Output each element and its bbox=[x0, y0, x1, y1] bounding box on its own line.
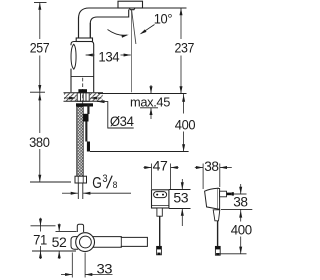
dimension 52 bbox=[58, 224, 60, 232]
faucet neck bbox=[79, 17, 91, 38]
box body bbox=[152, 190, 169, 208]
aerator bump bbox=[129, 8, 135, 10]
second extension line (pivot top) bbox=[56, 230, 77, 232]
svg-text:38: 38 bbox=[204, 159, 219, 174]
body base joint line bbox=[71, 76, 94, 78]
dimension 400 (plug cable) bbox=[240, 209, 242, 221]
top extension line bbox=[34, 2, 47, 4]
plug body bbox=[205, 188, 218, 209]
svg-text:400: 400 bbox=[231, 222, 253, 237]
dimension 38 horizontal bbox=[202, 164, 204, 190]
mounting washer (black) bbox=[76, 103, 93, 106]
base seal (black) bbox=[78, 89, 87, 93]
pin collar bbox=[220, 191, 227, 197]
top extension line from spout head bbox=[143, 7, 187, 9]
lever arm bbox=[90, 237, 147, 248]
cable-end extension line bbox=[90, 151, 189, 153]
deck-level extension line (right) bbox=[98, 93, 187, 95]
svg-text:380: 380 bbox=[29, 135, 50, 150]
dimension 47 bbox=[151, 164, 153, 190]
deck-level extension line (left) bbox=[30, 91, 45, 93]
strain relief stem bbox=[213, 210, 220, 221]
dimension 53 bbox=[169, 189, 191, 191]
collar bbox=[76, 38, 92, 42]
hatch right bbox=[90, 93, 103, 101]
pin-level extension line bbox=[234, 193, 247, 195]
dimension 71 bbox=[40, 226, 42, 232]
svg-text:10°: 10° bbox=[154, 12, 173, 27]
svg-text:33: 33 bbox=[97, 261, 113, 276]
body bbox=[71, 42, 94, 93]
svg-text:8: 8 bbox=[113, 180, 118, 191]
svg-text:G: G bbox=[92, 175, 102, 192]
hole arrow left bbox=[64, 97, 70, 99]
tailpipe bbox=[78, 183, 83, 199]
dimension 38 vertical bbox=[240, 184, 242, 194]
body dashed centerline bbox=[82, 78, 84, 106]
hole arrow right bbox=[96, 97, 102, 99]
bottom extension line bbox=[32, 250, 76, 252]
svg-text:53: 53 bbox=[173, 190, 189, 205]
deck top line bbox=[64, 92, 104, 94]
svg-text:71: 71 bbox=[33, 233, 47, 248]
svg-text:52: 52 bbox=[52, 235, 67, 250]
pivot outer circle bbox=[76, 233, 95, 252]
deck bottom line bbox=[64, 100, 104, 102]
strain relief stem bbox=[157, 208, 162, 216]
cable connector bbox=[157, 246, 162, 254]
left leader arc of angle bbox=[108, 30, 128, 36]
plug bottom extension line bbox=[221, 208, 252, 210]
spout arm inner curve and bottom bbox=[90, 10, 128, 39]
valve body behind pivot bbox=[71, 237, 78, 250]
top extension line (cap top) bbox=[31, 225, 56, 227]
hose fitting nut bbox=[75, 176, 87, 183]
leader from label to angle bbox=[141, 25, 155, 34]
svg-text:Ø34: Ø34 bbox=[110, 114, 134, 130]
sensor window lens on left of body bbox=[71, 44, 76, 69]
svg-text:134: 134 bbox=[98, 50, 119, 65]
svg-text:400: 400 bbox=[175, 118, 196, 133]
pin bbox=[227, 193, 232, 196]
box bottom line bbox=[152, 205, 169, 207]
vertical centerline from spout outlet bbox=[131, 10, 133, 92]
svg-text:max.45: max.45 bbox=[130, 95, 170, 110]
cable down bbox=[217, 221, 219, 247]
lever cap pin bbox=[77, 224, 83, 232]
hatch left bbox=[64, 93, 77, 101]
spout arm outer curve and top bbox=[71, 1, 143, 92]
380 bottom extension line bbox=[30, 181, 71, 183]
tilted 10 deg line bbox=[132, 10, 136, 44]
svg-text:47: 47 bbox=[153, 159, 168, 174]
pivot inner circle bbox=[80, 236, 92, 248]
cable down bbox=[159, 216, 161, 246]
cable-end extension line bbox=[216, 253, 247, 255]
dimension 33 bbox=[71, 253, 73, 278]
spout head block bbox=[118, 1, 143, 8]
euro socket face bbox=[154, 192, 167, 198]
svg-text:3: 3 bbox=[102, 173, 107, 185]
cable connector bbox=[215, 246, 220, 255]
svg-text:237: 237 bbox=[175, 41, 195, 56]
svg-text:257: 257 bbox=[30, 41, 50, 56]
svg-text:38: 38 bbox=[233, 194, 248, 209]
257 dimension line bbox=[39, 3, 41, 40]
